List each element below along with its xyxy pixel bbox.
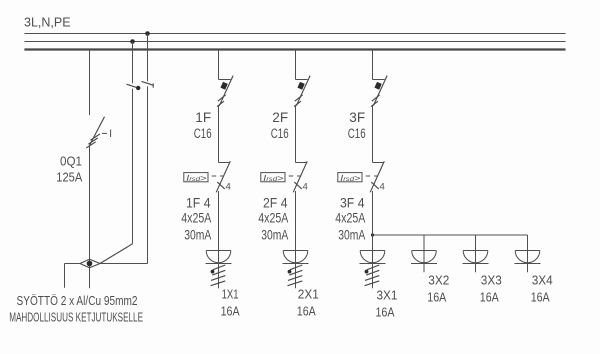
- svg-text:4x25A: 4x25A: [181, 210, 211, 225]
- socket outlet 3X1 flat top: [360, 250, 385, 252]
- bus line PE thick: [24, 48, 565, 50]
- node dot on middle bus at x=133: [130, 39, 135, 44]
- RCD 3F4 opening cross tick: [371, 182, 378, 189]
- socket outlet 3X3 tangent line: [463, 263, 489, 265]
- RCD 2F4 linkage dashes: [289, 175, 301, 177]
- svg-text:16A: 16A: [221, 303, 240, 318]
- svg-text:3L,N,PE: 3L,N,PE: [24, 15, 71, 30]
- svg-text:MAHDOLLISUUS KETJUTUKSELLE: MAHDOLLISUUS KETJUTUKSELLE: [9, 311, 143, 325]
- wire 1F to RCD: [218, 106, 220, 163]
- svg-text:2F: 2F: [272, 110, 288, 125]
- breaker 2F pole hatches: [294, 95, 303, 107]
- wire drop to socket 3X3: [475, 235, 477, 272]
- breaker 1F blade: [219, 76, 233, 106]
- wire chain diagonal into connector: [100, 244, 133, 264]
- svg-text:3F 4: 3F 4: [340, 195, 365, 210]
- svg-text:16A: 16A: [480, 289, 499, 304]
- wire main feeder lower: [89, 145, 91, 288]
- link dot on chain branch: [136, 86, 140, 90]
- svg-text:1X1: 1X1: [222, 287, 239, 302]
- svg-text:3X3: 3X3: [481, 273, 502, 288]
- svg-text:16A: 16A: [427, 289, 446, 304]
- RCD 2F4 Irsd box: [261, 173, 285, 182]
- RCD 1F4 fixed contact tick: [219, 162, 230, 164]
- switch Q1 pole hatches: [86, 134, 100, 148]
- switch Q1 blade: [90, 117, 105, 146]
- link blade on chain branch: [127, 84, 138, 88]
- svg-text:2X1: 2X1: [298, 287, 319, 302]
- breaker 3F wire from bus: [372, 50, 374, 80]
- socket 2X1 earthing hatches: [288, 265, 303, 286]
- svg-text:C16: C16: [271, 126, 289, 141]
- wire drop to socket 1X1: [218, 191, 220, 288]
- breaker 1F fixed contact tick: [219, 79, 231, 81]
- svg-text:1F 4: 1F 4: [186, 195, 211, 210]
- wire N branch vertical x=147.4 lower: [147, 86, 149, 263]
- socket 1X1 earthing hatches: [211, 265, 226, 286]
- socket outlet 2X1 bowl: [283, 251, 308, 263]
- RCD 2F4 opening cross tick: [294, 182, 301, 189]
- breaker 2F fixed contact tick: [296, 79, 308, 81]
- link blade on N branch with terminal bar: [142, 81, 154, 87]
- svg-text:Irsd>: Irsd>: [263, 173, 284, 183]
- socket outlet 3X4 flat top: [515, 250, 540, 252]
- socket outlet 1X1 flat top: [206, 250, 231, 252]
- svg-text:16A: 16A: [531, 289, 550, 304]
- bus line L top: [24, 33, 565, 35]
- connector center dot: [87, 261, 93, 267]
- svg-text:30mA: 30mA: [338, 227, 365, 242]
- socket outlet 2X1 tangent line: [283, 263, 309, 265]
- svg-text:C16: C16: [348, 126, 366, 141]
- wire N branch vertical x=147.4 upper: [147, 34, 149, 82]
- socket 2X1 earthing dot: [288, 270, 292, 274]
- wire 3F to RCD: [372, 106, 374, 163]
- RCD 1F4 Irsd box: [184, 173, 208, 182]
- switch Q1 actuator dash and bar: [102, 130, 111, 138]
- wire 2F to RCD: [295, 106, 297, 163]
- RCD 3F4 fixed contact tick: [373, 162, 384, 164]
- svg-text:C16: C16: [194, 126, 212, 141]
- socket outlet 1X1 tangent line: [206, 263, 232, 265]
- wire drop to socket 3X4: [527, 235, 529, 272]
- socket outlet 3X3 bowl: [463, 251, 488, 263]
- socket outlet 3X1 tangent line: [360, 263, 386, 265]
- RCD 2F4 fixed contact tick: [296, 162, 307, 164]
- socket outlet 3X2 flat top: [412, 250, 437, 252]
- socket outlet 3X4 bowl: [515, 251, 540, 263]
- svg-text:3X4: 3X4: [532, 273, 553, 288]
- wire drop to socket 3X1: [372, 191, 374, 288]
- svg-text:4: 4: [303, 181, 308, 192]
- socket outlet 3X3 flat top: [463, 250, 488, 252]
- svg-text:4: 4: [380, 181, 385, 192]
- wire chain branch vertical x=133 upper: [132, 42, 134, 84]
- svg-text:16A: 16A: [297, 303, 316, 318]
- socket 3X1 earthing dot: [365, 270, 369, 274]
- breaker 1F thermal release square: [220, 82, 227, 90]
- svg-text:0Q1: 0Q1: [60, 154, 82, 168]
- socket outlet 3X2 bowl: [412, 251, 437, 263]
- RCD 1F4 linkage dashes: [212, 175, 224, 177]
- breaker 2F blade: [296, 76, 310, 106]
- wire branch to sockets 3X2 3X3 3X4: [373, 234, 528, 236]
- RCD 2F4 blade: [293, 161, 307, 192]
- breaker 3F thermal release square: [374, 82, 381, 90]
- connector diamond: [80, 259, 100, 268]
- svg-text:SYÖTTÖ 2 x Al/Cu 95mm2: SYÖTTÖ 2 x Al/Cu 95mm2: [17, 294, 138, 308]
- breaker 1F wire from bus: [218, 50, 220, 80]
- svg-text:Irsd>: Irsd>: [340, 173, 361, 183]
- svg-text:Irsd>: Irsd>: [186, 173, 207, 183]
- socket outlet 3X4 tangent line: [515, 263, 541, 265]
- breaker 3F fixed contact tick: [373, 79, 385, 81]
- RCD 3F4 linkage dashes: [366, 175, 378, 177]
- node dot on top bus at x=147.4: [145, 31, 150, 36]
- breaker 3F pole hatches: [371, 95, 380, 107]
- svg-text:1F: 1F: [195, 110, 211, 125]
- breaker 2F thermal release square: [297, 82, 304, 90]
- breaker 1F pole hatches: [217, 95, 226, 107]
- svg-text:16A: 16A: [376, 304, 395, 319]
- breaker 3F blade: [373, 76, 387, 106]
- bus line N middle: [24, 41, 565, 43]
- wire connector to N branch horizontal: [100, 263, 148, 265]
- breaker 2F wire from bus: [295, 50, 297, 80]
- socket 1X1 earthing dot: [211, 270, 215, 274]
- socket outlet 3X2 tangent line: [411, 263, 437, 265]
- socket 3X1 earthing hatches: [365, 265, 380, 286]
- wire chain branch vertical x=133 lower: [132, 89, 134, 244]
- wire drop to socket 3X2: [423, 235, 425, 272]
- svg-text:4x25A: 4x25A: [258, 210, 288, 225]
- RCD 1F4 opening cross tick: [217, 182, 224, 189]
- RCD 1F4 blade: [216, 161, 230, 192]
- socket outlet 2X1 flat top: [283, 250, 308, 252]
- svg-text:3X2: 3X2: [428, 273, 449, 288]
- RCD 3F4 blade: [370, 161, 384, 192]
- svg-text:4x25A: 4x25A: [335, 210, 365, 225]
- wire drop to socket 2X1: [295, 191, 297, 288]
- svg-text:30mA: 30mA: [184, 227, 211, 242]
- svg-text:3X1: 3X1: [377, 288, 398, 303]
- svg-text:125A: 125A: [56, 171, 83, 185]
- wire supply horizontal left: [65, 263, 81, 265]
- svg-text:30mA: 30mA: [261, 227, 288, 242]
- junction dot branch tap: [371, 233, 374, 236]
- wire supply left drop: [64, 264, 66, 288]
- svg-text:4: 4: [226, 181, 231, 192]
- socket outlet 1X1 bowl: [206, 251, 231, 263]
- svg-text:2F 4: 2F 4: [263, 195, 288, 210]
- socket outlet 3X1 bowl: [360, 251, 385, 263]
- RCD 3F4 Irsd box: [338, 173, 362, 182]
- svg-text:3F: 3F: [349, 110, 365, 125]
- wire main feeder upper: [89, 50, 91, 115]
